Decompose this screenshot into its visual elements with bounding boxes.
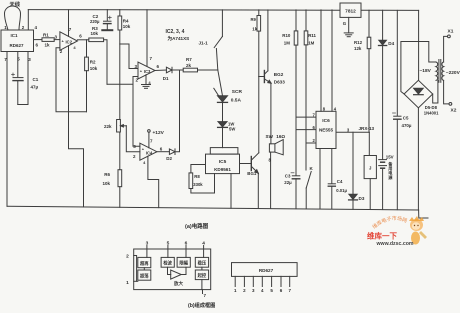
svg-text:www.dzsc.com: www.dzsc.com xyxy=(376,241,414,247)
wire J1-1 lower to SCR anode xyxy=(216,49,222,96)
wire +12V to IC4 pin7 xyxy=(148,132,150,148)
wire J1-1 from rail xyxy=(221,10,223,37)
svg-text:(a)电路图: (a)电路图 xyxy=(185,222,209,230)
resistor R10 1M xyxy=(294,31,298,45)
wire 起控 to box bottom xyxy=(201,280,203,290)
svg-text:10k: 10k xyxy=(90,66,98,71)
wire D3 to ground rail xyxy=(352,200,354,209)
resistor R9 1k xyxy=(257,16,261,32)
wire IC6 pin2 xyxy=(306,142,316,144)
svg-text:KD9561: KD9561 xyxy=(214,167,231,172)
svg-text:+12V: +12V xyxy=(153,130,165,136)
svg-text:IC2: IC2 xyxy=(66,40,73,45)
svg-text:D4: D4 xyxy=(388,41,394,46)
wire IC6 pin5 down xyxy=(331,149,333,184)
svg-text:放大: 放大 xyxy=(173,280,184,287)
svg-text:IC2, 3, 4: IC2, 3, 4 xyxy=(166,29,185,35)
svg-text:1M: 1M xyxy=(284,41,290,46)
block 检波 xyxy=(161,257,174,267)
wire R10 down through pin7/pin6 junctions xyxy=(295,45,297,175)
wire top +12V rail xyxy=(28,9,340,12)
wire R7 right to junction xyxy=(198,69,218,71)
svg-text:1: 1 xyxy=(126,280,129,286)
resistor R12 12k xyxy=(367,37,371,49)
svg-text:3: 3 xyxy=(146,241,149,247)
wire bridge AC1 loop to transformer top xyxy=(401,42,436,95)
wire C2 bottom to ground bar xyxy=(106,24,108,30)
switch K blade xyxy=(306,172,311,189)
wire R4 down to pot xyxy=(119,30,121,120)
svg-text:J: J xyxy=(369,166,372,171)
RD627 pin 2 lead xyxy=(243,276,245,286)
wire BG1 collector up to R9 line xyxy=(258,77,260,153)
block 限幅 xyxy=(177,257,190,267)
svg-text:4: 4 xyxy=(202,241,205,247)
svg-text:J1-1: J1-1 xyxy=(199,40,209,45)
wire IC5 left pin to R8 top xyxy=(191,165,206,173)
wire 超再 to 振荡 xyxy=(143,268,145,270)
wire IC6 pin6 xyxy=(296,129,316,131)
svg-text:1k: 1k xyxy=(45,43,51,48)
svg-text:5W: 5W xyxy=(229,126,235,131)
wire 7812 G pin xyxy=(348,17,350,32)
wire C2 to rail xyxy=(106,10,108,21)
battery 15V xyxy=(379,159,387,161)
wire IC6 pin1 to ground rail xyxy=(319,149,321,209)
wire C4 to ground rail xyxy=(331,186,333,209)
IC1 RD627 box xyxy=(1,30,34,52)
wire node to IC3 pin2 / IC4 pin3 xyxy=(107,83,133,85)
svg-text:22k: 22k xyxy=(104,124,112,129)
svg-text:SCR: SCR xyxy=(232,89,243,95)
wire DW to IC5 top xyxy=(222,128,224,148)
wire 220V bottom lead to X2 xyxy=(444,80,449,104)
svg-text:10k: 10k xyxy=(123,24,131,29)
RD627 pin 4 lead xyxy=(261,276,263,286)
wire IC3 pin7 to rail xyxy=(146,10,148,67)
wire C5 from rail xyxy=(396,10,398,115)
wire relay to ground rail xyxy=(369,179,371,210)
wire pot to R6 xyxy=(119,132,121,170)
svg-text:10k: 10k xyxy=(91,31,99,36)
wire R8 bottom loop to IC5 bottom pin xyxy=(191,174,215,193)
wire BG2 emitter down to speaker xyxy=(270,83,272,144)
svg-text:IC1: IC1 xyxy=(10,33,18,38)
wire R4 node to IC3 pin3 xyxy=(120,44,138,69)
watermark mascot xyxy=(410,219,423,231)
svg-text:22µ: 22µ xyxy=(284,180,292,185)
resistor R7 2k xyxy=(183,68,197,72)
diode D3 xyxy=(349,194,357,199)
wire K lower to ground rail xyxy=(305,188,307,209)
wire R12 down to relay node xyxy=(368,49,370,133)
resistor R2 10k xyxy=(85,57,89,71)
wire R3 right xyxy=(104,40,107,84)
wire C3 to ground rail xyxy=(295,179,297,209)
thyristor SCR 0.5A xyxy=(218,96,228,102)
transformer secondary winding xyxy=(442,62,444,80)
svg-text:R2: R2 xyxy=(90,60,96,65)
svg-text:D3: D3 xyxy=(359,196,365,201)
wire R10 from rail xyxy=(295,10,297,31)
svg-text:X2: X2 xyxy=(451,107,457,113)
svg-text:10k: 10k xyxy=(103,181,111,186)
svg-text:12k: 12k xyxy=(354,46,362,51)
wire bottom rail tail xyxy=(419,210,428,218)
zener DW xyxy=(218,122,227,127)
wire down to IC4 pin3 xyxy=(133,84,140,146)
wire top +18V rail right of 7812 xyxy=(361,9,419,11)
diode D2 xyxy=(169,149,175,155)
RD627 package box xyxy=(232,263,298,277)
svg-text:限幅: 限幅 xyxy=(179,260,188,267)
wire IC6 pin7 xyxy=(296,116,316,118)
wire IC4 pin4 staircase to ground rail xyxy=(148,156,159,207)
wire IC3 pin4 stub xyxy=(145,75,147,85)
capacitor C3 22u xyxy=(292,175,300,177)
wire IC5 bottom pin2 to ground rail xyxy=(230,174,232,209)
resistor R3 10k xyxy=(89,38,104,42)
transistor BG2 xyxy=(263,71,265,83)
wire IC2 pin7 to rail xyxy=(68,10,70,37)
watermark arc text 维库电子市场网 xyxy=(374,220,409,229)
block diagram outer box xyxy=(134,249,211,290)
terminal X1 xyxy=(448,35,451,38)
wire IC1 pin4 to rail xyxy=(27,10,29,30)
RD627 pin 6 lead xyxy=(280,276,282,286)
transistor BG1 xyxy=(250,157,252,171)
svg-text:IC3: IC3 xyxy=(144,69,151,74)
wire IC5 right pin to BG1 base xyxy=(240,163,252,165)
svg-text:RD627: RD627 xyxy=(259,268,274,273)
svg-text:SW: SW xyxy=(266,134,274,139)
RD627 pin 5 lead xyxy=(271,276,273,286)
switch J1-1 blade xyxy=(214,37,222,48)
svg-text:G: G xyxy=(343,21,347,26)
svg-text:D5-D8: D5-D8 xyxy=(425,105,438,110)
svg-text:R6: R6 xyxy=(104,172,110,177)
resistor R8 330k xyxy=(189,173,193,189)
resistor R11 1M xyxy=(304,31,308,45)
wire C1 bottom xyxy=(17,81,19,105)
svg-text:D2: D2 xyxy=(166,156,172,161)
svg-text:2k: 2k xyxy=(186,63,192,68)
svg-text:R12: R12 xyxy=(354,40,363,45)
svg-text:检波: 检波 xyxy=(163,260,172,267)
RD627 pin 3 lead xyxy=(252,276,254,286)
wire IC2 pin4 staircase to ground rail xyxy=(69,46,84,207)
wire BG2 base xyxy=(259,76,264,78)
svg-text:R4: R4 xyxy=(123,18,129,23)
svg-text:IC4: IC4 xyxy=(146,151,153,156)
svg-text:7812: 7812 xyxy=(345,9,356,15)
wire K upper xyxy=(305,143,307,170)
capacitor C2 220u xyxy=(104,20,112,22)
svg-text:BG2: BG2 xyxy=(274,72,284,77)
wire R1 to IC2 pin3 xyxy=(54,39,60,41)
svg-text:R1: R1 xyxy=(43,33,49,38)
svg-text:C1: C1 xyxy=(33,77,39,82)
IC5 buzzer plate box xyxy=(210,148,238,155)
svg-text:6: 6 xyxy=(185,241,188,247)
wire R6 to ground rail xyxy=(119,187,121,208)
wire speaker to ground rail xyxy=(270,152,272,208)
voltage regulator 7812 box xyxy=(340,3,361,17)
svg-text:RD627: RD627 xyxy=(9,43,24,48)
wire IC1 pin7 to ground rail xyxy=(6,52,8,207)
wire 检波 to amp xyxy=(168,267,171,274)
resistor R1 1k xyxy=(42,38,54,42)
wire IC6 pin8 to rail xyxy=(320,10,322,111)
wire D4 to battery xyxy=(382,46,384,159)
wire 稳压 to 起控 xyxy=(201,267,203,270)
svg-text:0.5A: 0.5A xyxy=(231,98,242,104)
svg-text:~18V: ~18V xyxy=(420,68,432,74)
wire R11 from rail xyxy=(305,10,307,31)
svg-text:15V: 15V xyxy=(386,155,394,160)
svg-text:5: 5 xyxy=(167,241,170,247)
wire BG1 emitter to ground rail xyxy=(257,173,259,207)
svg-text:振荡: 振荡 xyxy=(140,273,149,280)
wire IC6 pin3 output xyxy=(336,131,369,133)
wire bridge DC- to ground rail xyxy=(417,108,419,210)
wire 220V top lead to X1 xyxy=(444,36,448,62)
svg-text:维库一下: 维库一下 xyxy=(367,231,397,241)
transformer primary winding xyxy=(436,62,438,80)
svg-text:为A741XS: 为A741XS xyxy=(168,35,190,42)
svg-text:R8: R8 xyxy=(194,174,200,179)
wire pin6 stub xyxy=(185,246,187,258)
svg-text:NE555: NE555 xyxy=(319,127,333,132)
op-amp IC3 xyxy=(138,62,155,79)
RD627 pin 1 lead xyxy=(234,276,236,286)
wire pin1 stub xyxy=(134,280,138,282)
svg-text:R9: R9 xyxy=(251,17,257,22)
svg-text:X1: X1 xyxy=(448,28,454,34)
svg-text:IC5: IC5 xyxy=(219,159,227,165)
svg-text:1N4001: 1N4001 xyxy=(424,111,439,116)
diode D1 xyxy=(166,67,172,73)
diode D4 xyxy=(379,40,387,45)
ground bar under C2 xyxy=(102,29,112,31)
svg-text:C3: C3 xyxy=(285,174,291,179)
svg-text:JRX-13: JRX-13 xyxy=(359,126,375,131)
op-amp IC2 xyxy=(60,32,78,51)
svg-text:IC6: IC6 xyxy=(322,118,330,124)
wire IC2 pin2 feedback xyxy=(56,48,87,112)
wire pin5 stub xyxy=(167,246,169,258)
wire battery to ground rail xyxy=(382,169,384,210)
wire IC2 output xyxy=(77,39,88,41)
wire joining pin5/pin3 xyxy=(18,104,28,106)
svg-text:330k: 330k xyxy=(193,182,203,187)
wire IC1 pin3 down xyxy=(27,52,29,105)
op-amp IC4 xyxy=(140,143,157,160)
ground IC3 pin4 xyxy=(142,84,151,86)
wire IC3 pin2 xyxy=(133,77,138,85)
svg-text:1M: 1M xyxy=(308,41,314,46)
svg-text:超再: 超再 xyxy=(139,260,149,267)
wire pot wiper to IC4 pin2 xyxy=(126,126,140,152)
svg-text:47µ: 47µ xyxy=(31,85,39,90)
svg-text:R11: R11 xyxy=(308,33,316,38)
svg-text:(b)组成框图: (b)组成框图 xyxy=(188,301,215,308)
wire pin3 stub xyxy=(146,246,148,258)
svg-text:R7: R7 xyxy=(186,57,192,62)
wire D3 branch from pin3 line xyxy=(352,132,354,194)
wire R12 from rail xyxy=(368,10,370,37)
ground 7812 G xyxy=(344,32,353,34)
wire R9 line from rail xyxy=(258,10,260,16)
wire SCR cathode down xyxy=(222,103,224,122)
svg-text:起控: 起控 xyxy=(197,272,207,279)
svg-text:D1: D1 xyxy=(163,76,169,81)
wire SCR gate diagonal xyxy=(214,88,220,97)
wire IC1 pin5 down xyxy=(17,52,19,77)
terminal +12V xyxy=(148,130,151,133)
wire R11 down to pin2 line xyxy=(305,45,307,143)
resistor R4 10k xyxy=(118,16,122,30)
wire C5 to ground rail xyxy=(396,119,398,209)
wire IC1 pin6 to R1 xyxy=(34,39,43,41)
wire R2 top to output node xyxy=(86,40,88,57)
speaker SW 16ohm xyxy=(269,144,275,152)
capacitor C5 470u xyxy=(394,115,401,117)
RD627 pin 7 lead xyxy=(289,276,291,286)
potentiometer 22k xyxy=(117,120,121,133)
svg-text:2: 2 xyxy=(126,254,129,260)
wire pin7 stub below box xyxy=(202,290,204,294)
transformer core xyxy=(438,60,440,83)
wire bridge DC+ to rail xyxy=(418,10,420,80)
wire relay node down xyxy=(368,132,370,155)
bridge rectifier D5-D8 xyxy=(404,80,433,108)
svg-text:0.01µ: 0.01µ xyxy=(336,188,347,193)
svg-text:天线: 天线 xyxy=(10,0,21,8)
svg-text:16Ω: 16Ω xyxy=(276,134,285,139)
amplifier triangle 放大 xyxy=(171,270,182,279)
wire pin2 stub xyxy=(134,256,137,282)
antenna loop xyxy=(5,6,21,30)
wire R9 bottom xyxy=(258,31,260,76)
svg-text:470µ: 470µ xyxy=(402,123,412,128)
wire D2 up to D1/R7 node xyxy=(175,70,180,152)
capacitor C1 47u xyxy=(13,77,23,79)
svg-text:220µ: 220µ xyxy=(90,19,100,24)
IC6 NE555 box xyxy=(316,111,336,148)
wire R4 top from rail xyxy=(119,10,121,16)
block 起控 xyxy=(195,270,208,280)
wire bridge AC2 to transformer bottom xyxy=(433,81,438,104)
svg-text:1k: 1k xyxy=(252,27,257,32)
block 稳压 xyxy=(195,257,208,267)
block 超再 xyxy=(138,257,151,267)
wire BG2 collector to rail xyxy=(267,10,269,71)
svg-text:C4: C4 xyxy=(337,179,343,184)
block 振荡 xyxy=(138,270,151,280)
wire IC4 output xyxy=(157,151,170,153)
svg-text:BG1: BG1 xyxy=(247,171,257,176)
relay J coil box xyxy=(364,156,376,179)
terminal X2 xyxy=(449,103,452,106)
svg-text:~220V: ~220V xyxy=(446,70,460,76)
svg-text:C5: C5 xyxy=(403,116,409,121)
wire R2 bottom xyxy=(86,71,88,112)
wire bottom ground rail xyxy=(7,206,419,210)
wire D4 from rail xyxy=(382,10,384,40)
svg-text:稳压: 稳压 xyxy=(198,260,207,267)
svg-text:R10: R10 xyxy=(282,33,291,38)
svg-text:D633: D633 xyxy=(274,80,285,85)
wire IC3 output xyxy=(155,69,166,72)
wire D1 to R7 xyxy=(172,69,183,71)
wire IC6 pin4 to rail xyxy=(331,10,333,111)
wire pin4 stub xyxy=(203,246,205,258)
wire amp to 限幅 xyxy=(181,267,186,274)
resistor R6 10k xyxy=(118,170,122,187)
IC5 KD9561 box xyxy=(206,154,240,174)
capacitor C4 0.01u xyxy=(328,183,335,185)
